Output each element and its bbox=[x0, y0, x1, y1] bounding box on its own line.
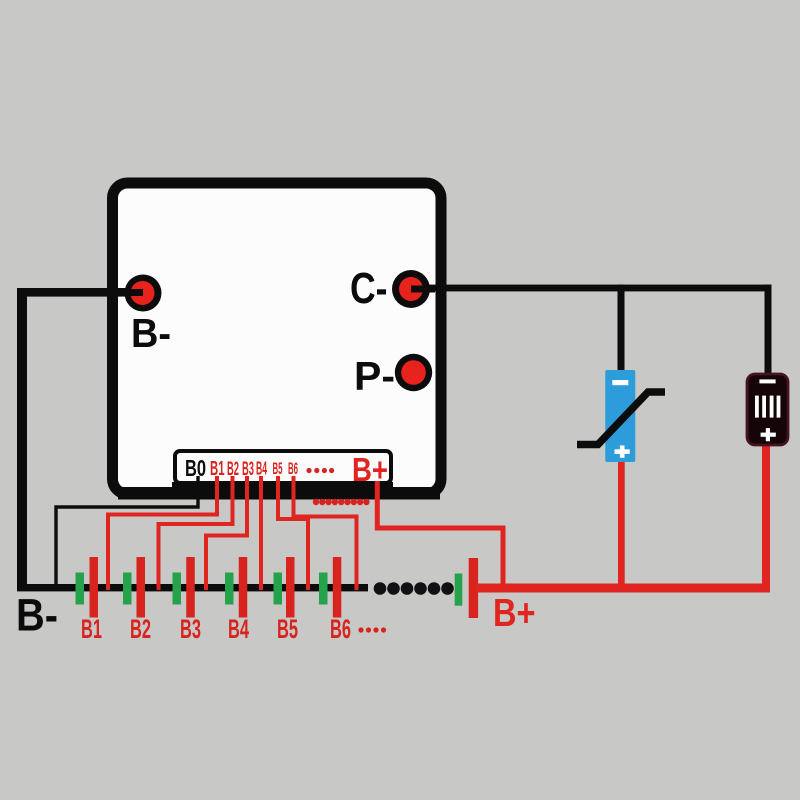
terminal B- bbox=[125, 275, 162, 312]
svg-text:B4: B4 bbox=[228, 614, 249, 644]
cell B4 negative plate bbox=[225, 573, 234, 605]
bus continuation dots bbox=[374, 582, 454, 595]
cell label ellipsis bbox=[358, 627, 386, 632]
balance wire B5 bbox=[278, 476, 308, 590]
balance wire B3 bbox=[206, 476, 247, 590]
board bottom border over strip bbox=[118, 487, 440, 500]
wire C- to right top horizontal bbox=[411, 285, 772, 292]
cell B3 negative plate bbox=[173, 573, 182, 605]
cell B3 positive plate bbox=[186, 557, 195, 618]
cell B2 positive plate bbox=[137, 557, 146, 618]
BMS board U1 bbox=[113, 183, 442, 494]
wire B+ red bus bbox=[476, 584, 770, 593]
load plus mark bbox=[761, 428, 776, 441]
wire vertical to charger bbox=[618, 285, 625, 372]
svg-text:B4: B4 bbox=[256, 459, 267, 479]
svg-text:B2: B2 bbox=[130, 614, 151, 644]
charger switch lever bbox=[577, 392, 665, 445]
load LD1 body bbox=[747, 374, 788, 445]
balance wire B4 bbox=[259, 476, 263, 590]
svg-text:B-: B- bbox=[131, 310, 171, 356]
cell B1 negative plate bbox=[76, 573, 85, 605]
svg-text:B+: B+ bbox=[352, 451, 388, 488]
svg-text:B+: B+ bbox=[493, 592, 536, 635]
cell B4 positive plate bbox=[239, 557, 248, 618]
charger plus mark bbox=[615, 445, 630, 457]
terminal C- bbox=[392, 270, 430, 308]
svg-text:B5: B5 bbox=[273, 459, 283, 478]
last cell negative plate bbox=[455, 574, 463, 606]
svg-text:B6: B6 bbox=[330, 614, 351, 644]
cell B5 positive plate bbox=[286, 557, 295, 618]
cell B2 negative plate bbox=[123, 573, 132, 605]
svg-text:P-: P- bbox=[354, 355, 395, 399]
wire left vertical rail (B-) bbox=[17, 288, 27, 588]
cell B5 negative plate bbox=[274, 573, 283, 605]
load minus mark bbox=[759, 379, 775, 383]
balance wire B6 bbox=[294, 476, 357, 590]
svg-text:B1: B1 bbox=[81, 614, 102, 644]
last cell positive plate (B+) bbox=[469, 558, 478, 618]
svg-text:B3: B3 bbox=[180, 614, 201, 644]
wire right vertical to load bbox=[765, 285, 772, 375]
load grille bars bbox=[755, 396, 780, 418]
terminal P- bbox=[395, 354, 432, 391]
wire B+ from strip bbox=[377, 481, 503, 589]
charger CHG1 body bbox=[605, 370, 635, 462]
wire charger positive drop bbox=[618, 458, 625, 592]
wire load positive drop bbox=[762, 442, 770, 592]
wire B0 (black) bbox=[56, 476, 198, 588]
cell B6 positive plate bbox=[333, 557, 342, 618]
connector strip J1 bbox=[175, 451, 391, 483]
cell B6 negative plate bbox=[319, 573, 328, 605]
wire battery bus (black) bbox=[17, 584, 368, 591]
cell B1 positive plate bbox=[90, 557, 99, 618]
balance wire B1 bbox=[108, 476, 217, 590]
svg-text:B-: B- bbox=[16, 590, 58, 641]
svg-text:C-: C- bbox=[350, 264, 388, 313]
balance wire B2 bbox=[159, 476, 233, 590]
red dot row below board bbox=[313, 499, 370, 505]
wire B- terminal to left rail bbox=[17, 288, 143, 297]
svg-text:B6: B6 bbox=[288, 459, 298, 478]
strip ellipsis dots bbox=[306, 468, 334, 473]
charger minus mark bbox=[612, 380, 628, 385]
svg-text:B0: B0 bbox=[185, 455, 206, 481]
svg-text:B5: B5 bbox=[277, 614, 298, 644]
